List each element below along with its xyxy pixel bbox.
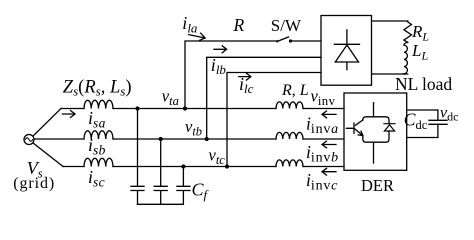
svg-text:ilb: ilb [211, 55, 227, 77]
node Cf tap phase c [181, 164, 185, 168]
label Cf [192, 180, 210, 203]
rectifier box NL [321, 16, 372, 86]
switch S/W [276, 37, 292, 43]
inductor Ls phase c [84, 158, 113, 166]
node Cf tap phase b [159, 137, 163, 141]
label i_sa [88, 108, 106, 131]
label v_tb [185, 117, 202, 139]
label C_dc [404, 110, 428, 133]
wire dc link bottom [407, 124, 438, 137]
inverter box DER [344, 93, 407, 170]
IGBT U1 inside DER [346, 103, 389, 163]
node Cf tap phase a [135, 106, 139, 110]
svg-text:Zs(Rs, Ls): Zs(Rs, Ls) [63, 78, 132, 99]
wire i_la tap [185, 41, 277, 109]
svg-text:ilc: ilc [239, 74, 254, 96]
label i_invc [306, 170, 338, 194]
label i_sb [88, 135, 106, 158]
label v_dc [440, 105, 458, 124]
current arrow i_inva [322, 111, 336, 118]
svg-text:Cdc: Cdc [404, 110, 428, 133]
label i_la [182, 13, 198, 36]
label i_lc [239, 74, 254, 96]
wire i_lc tap [227, 73, 321, 167]
resistor R_L [404, 21, 412, 42]
node v_ta [183, 106, 187, 110]
inductor Ls phase a [84, 100, 113, 108]
svg-text:isc: isc [88, 167, 105, 190]
inductor R,L phase a [276, 102, 303, 109]
current arrow i_invb [322, 141, 336, 148]
diode inside rectifier [334, 30, 359, 70]
svg-text:vtc: vtc [209, 146, 226, 168]
label v_inv [311, 87, 336, 109]
wire phase a bus [61, 108, 344, 110]
wire phase a fan diagonal [33, 109, 61, 137]
label R [233, 15, 245, 35]
wire phase b from source [35, 138, 85, 140]
inductor R,L phase b [276, 132, 303, 139]
current arrow i_sa [63, 111, 76, 118]
label DER [361, 176, 394, 195]
AC source V_s [24, 135, 34, 145]
wire rectifier output bottom [372, 73, 408, 75]
current arrow over i_lc [239, 73, 251, 80]
label i_inva [306, 114, 338, 138]
svg-text:vta: vta [162, 87, 179, 109]
label i_lb [211, 55, 227, 77]
svg-text:S/W: S/W [271, 16, 302, 35]
svg-text:NL load: NL load [395, 74, 452, 94]
label R, L [281, 82, 309, 99]
capacitor Cf branch b [154, 139, 167, 204]
svg-text:vinv: vinv [311, 87, 336, 109]
wire switch to rectifier [292, 40, 321, 42]
wire Cf bottom bus [138, 203, 184, 205]
wire phase c bus [63, 166, 344, 168]
svg-text:LL: LL [411, 41, 428, 63]
capacitor Cf branch a [131, 109, 144, 205]
svg-text:R, L: R, L [281, 82, 309, 99]
wire dc link top [407, 110, 438, 120]
wire phase c fan diagonal [33, 143, 63, 167]
label Zs(Rs, Ls) [63, 78, 132, 99]
svg-text:isa: isa [88, 108, 106, 131]
inductor Ls phase b [84, 131, 113, 139]
node v_tc [225, 164, 229, 168]
svg-text:iinva: iinva [306, 114, 338, 138]
svg-text:(grid): (grid) [13, 175, 55, 192]
label v_ta [162, 87, 179, 109]
svg-text:iinvc: iinvc [306, 170, 338, 194]
label i_invb [306, 142, 338, 166]
label S/W [271, 16, 302, 35]
label i_sc [88, 167, 105, 190]
inductor L_L [404, 42, 408, 74]
svg-text:iinvb: iinvb [306, 142, 338, 166]
svg-text:vtb: vtb [185, 117, 202, 139]
diode inside DER [384, 124, 395, 131]
svg-text:isb: isb [88, 135, 106, 158]
current arrow i_invc [322, 168, 336, 175]
svg-text:R: R [233, 15, 245, 35]
svg-text:DER: DER [361, 176, 394, 195]
current arrow i_la [189, 33, 205, 40]
svg-text:vdc: vdc [440, 105, 458, 124]
svg-text:Cf: Cf [192, 180, 210, 203]
capacitor Cf branch c [177, 167, 190, 205]
inductor R,L phase c [276, 160, 303, 167]
label v_tc [209, 146, 226, 168]
svg-text:ila: ila [182, 13, 198, 36]
current arrow i_lb [214, 46, 227, 53]
wire i_lb tap [207, 57, 321, 139]
capacitor C_dc [429, 120, 447, 124]
label V_s (grid) [13, 158, 55, 192]
label NL load [395, 74, 452, 94]
wire phase b bus [113, 138, 344, 140]
label L_L [411, 41, 428, 63]
wire rectifier output top [372, 20, 408, 22]
label R_L [411, 22, 429, 44]
node v_tb [205, 137, 209, 141]
